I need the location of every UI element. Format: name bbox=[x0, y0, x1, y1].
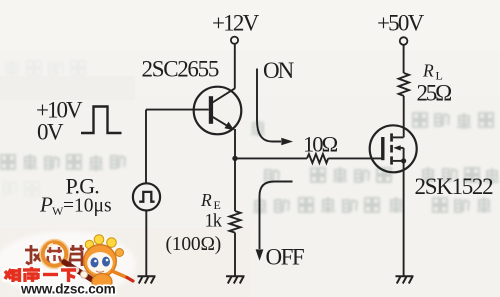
node emitter junction bbox=[232, 156, 237, 161]
svg-text:E: E bbox=[214, 198, 221, 212]
wire base bbox=[146, 109, 209, 111]
wire PG to ground bbox=[145, 211, 147, 276]
node +12V terminal bbox=[231, 37, 238, 44]
node +50V terminal bbox=[400, 37, 408, 45]
MOSFET Q2 2SK1522 bbox=[370, 125, 417, 172]
wire source to ground bbox=[403, 161, 405, 276]
wire +50V to RL bbox=[403, 45, 405, 73]
annotation arrow ON bbox=[257, 69, 281, 142]
svg-text:=10μs: =10μs bbox=[63, 196, 112, 217]
svg-text:(100Ω): (100Ω) bbox=[166, 234, 222, 255]
wire junction to RE bbox=[234, 158, 236, 211]
svg-text:R: R bbox=[422, 61, 434, 81]
wire junction to 10ohm resistor bbox=[235, 157, 307, 159]
svg-text:www.dzsc.com: www.dzsc.com bbox=[20, 282, 116, 297]
svg-text:25Ω: 25Ω bbox=[417, 81, 452, 106]
resistor 10 ohm bbox=[307, 154, 328, 163]
ground (RE) bbox=[226, 276, 245, 283]
watermark text zhao xin pian bbox=[25, 245, 84, 266]
waveform pulse icon bbox=[81, 107, 122, 134]
transistor Q1 2SC2655 bbox=[194, 87, 242, 135]
svg-text:P: P bbox=[39, 193, 53, 217]
svg-text:2SC2655: 2SC2655 bbox=[142, 57, 219, 82]
svg-text:1k: 1k bbox=[205, 212, 223, 232]
svg-text:0V: 0V bbox=[37, 120, 64, 145]
pulse generator P.G. bbox=[133, 183, 160, 210]
watermark logo (dzsc) bbox=[0, 231, 136, 297]
svg-text:+12V: +12V bbox=[212, 11, 260, 36]
wire +12V to collector bbox=[234, 44, 236, 89]
watermark magnifier bbox=[43, 242, 67, 266]
annotation arrow OFF bbox=[260, 182, 293, 250]
resistor RL 25 ohm bbox=[399, 73, 409, 96]
svg-text:+50V: +50V bbox=[377, 11, 425, 36]
resistor RE 1k bbox=[230, 211, 241, 233]
svg-text:10Ω: 10Ω bbox=[303, 132, 338, 157]
wire 10ohm to gate bbox=[328, 157, 383, 159]
svg-text:OFF: OFF bbox=[266, 245, 304, 270]
watermark magnifier handle bbox=[64, 262, 95, 282]
svg-text:2SK1522: 2SK1522 bbox=[415, 174, 494, 199]
wire RE to ground bbox=[234, 233, 236, 276]
wire base to pulse generator bbox=[145, 110, 147, 184]
wire emitter down bbox=[234, 129, 236, 158]
ground (PG) bbox=[138, 276, 156, 283]
bleed-through text (faint reverse-page print) bbox=[1, 113, 499, 214]
wire RL to drain bbox=[403, 96, 405, 137]
ground (MOSFET source) bbox=[396, 276, 414, 283]
svg-text:ON: ON bbox=[263, 58, 295, 83]
svg-text:R: R bbox=[200, 190, 212, 210]
watermark mascot bbox=[84, 235, 133, 291]
watermark text wei ku yi xia bbox=[5, 267, 76, 282]
